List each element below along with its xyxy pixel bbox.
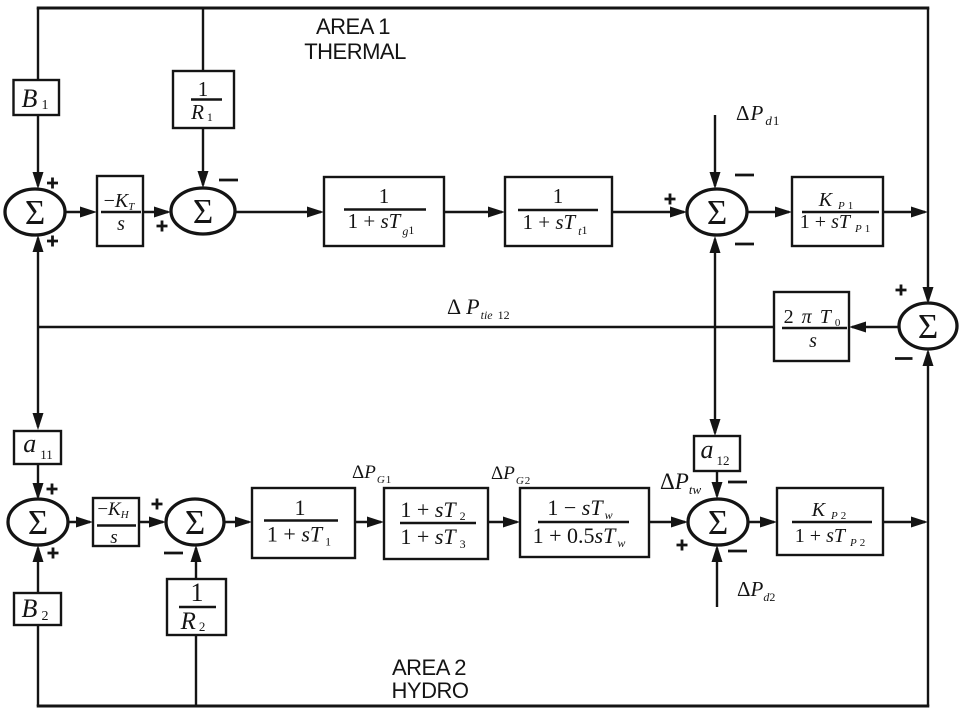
svg-text:1: 1	[295, 495, 306, 520]
wire top bus drop into block 1/R1	[202, 8, 204, 72]
wire bottom feedback bus (delta F2)	[37, 705, 930, 708]
wire tie line left end down into a11	[37, 327, 39, 427]
plus sign Stie top input	[896, 285, 907, 296]
plus sign S3 left input	[665, 194, 676, 205]
minus sign S5 bottom input	[164, 552, 183, 555]
svg-text:s: s	[809, 330, 817, 352]
svg-text:1: 1	[553, 184, 564, 208]
summing junction S2	[171, 188, 235, 234]
block -KH/s	[93, 498, 139, 548]
arrowhead into S1 top	[33, 172, 44, 189]
block 1/(1+sTt1) turbine	[505, 177, 612, 246]
plus sign S2 left input	[157, 221, 168, 232]
wire KP2 output to right bus (delta F2)	[883, 521, 925, 523]
block (1+sT2)/(1+sT3)	[384, 488, 488, 559]
arrowhead into S2 top	[198, 171, 209, 188]
minus sign Stie bottom input	[895, 357, 913, 360]
summing junction S1	[5, 189, 65, 235]
arrowhead at right bus junction lower	[911, 517, 928, 528]
wire tie line left end up into S1 bottom	[37, 238, 39, 327]
block 1/(1+sT1)	[252, 488, 355, 558]
wire tie junction up into S3 bottom	[714, 239, 716, 327]
svg-text:s: s	[110, 527, 117, 548]
plus sign S6 left input	[677, 540, 688, 551]
arrowhead into Stie top	[923, 287, 934, 304]
svg-text:Σ: Σ	[28, 503, 48, 542]
summing junction Stie	[899, 303, 957, 349]
svg-text:Σ: Σ	[25, 193, 45, 232]
svg-text:THERMAL: THERMAL	[304, 39, 406, 64]
block KP2/(1+sTP2) power system 2	[777, 488, 883, 555]
svg-text:Σ: Σ	[708, 503, 728, 542]
block B2	[14, 593, 61, 625]
wire right bus upper segment	[927, 8, 929, 301]
svg-text:1: 1	[198, 77, 209, 101]
block (1-sTw)/(1+0.5sTw) hydro turbine	[520, 488, 649, 557]
plus sign S4 top input	[47, 484, 58, 495]
wire B2 down to bottom bus	[37, 625, 39, 706]
arrowhead into (1+sT2)/(1+sT3)	[367, 517, 384, 528]
plus sign S4 bottom input	[48, 548, 59, 559]
wire (1+sT2)/(1+sT3) to hydro turbine block	[488, 521, 517, 523]
wire left drop from top bus into B1	[37, 8, 39, 81]
arrowhead into S2	[154, 207, 171, 218]
wire -KH/s to summing junction S5	[139, 521, 163, 523]
arrowhead into S3 top	[710, 172, 721, 189]
svg-text:AREA 2: AREA 2	[392, 655, 466, 680]
wire S6 to block KP2	[748, 521, 774, 523]
svg-text:Σ: Σ	[193, 192, 213, 231]
plus sign S5 left input	[152, 499, 163, 510]
wire 1/(1+sT1) to block (1+sT2)/(1+sT3)	[355, 521, 381, 523]
block -KT/s	[97, 176, 143, 246]
minus sign S6 top input	[728, 481, 747, 484]
svg-text:s: s	[117, 213, 125, 235]
wire S1 to block -KT/s	[65, 211, 92, 213]
wire tie-line power long horizontal	[38, 326, 774, 328]
wire 1/R2 up into S5 bottom	[195, 548, 197, 579]
wire a11 to summing junction S4	[37, 464, 39, 497]
arrowhead into S6	[671, 517, 688, 528]
svg-text:Σ: Σ	[185, 503, 205, 542]
wire KP1 output to right bus (delta F1)	[883, 211, 925, 213]
wire 1/R2 down to bottom bus	[195, 635, 197, 706]
arrowhead at right bus junction	[911, 207, 928, 218]
block 1/R1	[173, 71, 234, 128]
svg-text:AREA 1: AREA 1	[316, 14, 390, 39]
wire B2 up into S4 bottom	[37, 548, 39, 593]
svg-text:1: 1	[379, 184, 390, 208]
minus sign S6 bottom input	[728, 550, 747, 553]
block 1/R2	[167, 578, 226, 635]
arrowhead into S4 bottom	[33, 545, 44, 562]
block B1	[14, 80, 60, 115]
wire S3 to block KP1	[747, 211, 789, 213]
minus sign S2 top input	[219, 179, 238, 182]
svg-text:1 + sT1: 1 + sT1	[267, 522, 331, 549]
block a11	[14, 429, 61, 464]
wire load disturbance Pd2 into S6 bottom	[716, 548, 718, 607]
wire S5 to block 1/(1+sT1)	[224, 521, 249, 523]
arrowhead into KP2	[760, 517, 777, 528]
arrowhead into S1 bottom	[33, 235, 44, 252]
summing junction S5	[166, 499, 224, 545]
summing junction S3	[687, 189, 747, 235]
arrowhead into S6 top	[712, 482, 723, 499]
arrowhead into Stie bottom	[923, 349, 934, 366]
svg-text:1 + 0.5sTw: 1 + 0.5sTw	[533, 523, 626, 550]
arrowhead into a11 top	[33, 413, 44, 430]
arrowhead into governor block	[307, 207, 324, 218]
wire B1 to summing junction S1	[37, 115, 39, 186]
arrowhead into KP1	[775, 207, 792, 218]
wire a12 to S6 top	[716, 471, 718, 496]
arrowhead into 1/(1+sT1)	[235, 517, 252, 528]
wire S4 to block -KH/s	[68, 521, 90, 523]
plus sign S1 bottom input	[47, 236, 58, 247]
wire hydro turbine to summing junction S6	[649, 521, 685, 523]
wire S2 to governor block	[235, 211, 321, 213]
arrowhead into hydro turbine block	[503, 517, 520, 528]
block 2piT0/s tie-line	[774, 292, 849, 361]
wire -KT/s to summing junction S2	[143, 211, 168, 213]
svg-text:Σ: Σ	[707, 193, 727, 232]
block 1/(1+sTg1) governor	[324, 177, 444, 246]
minus sign S3 top input	[735, 174, 754, 177]
summing junction S4	[8, 499, 68, 545]
arrowhead into a12 top	[710, 419, 721, 436]
plus sign S1 top input	[47, 178, 58, 189]
arrowhead into S5	[149, 517, 166, 528]
summing junction S6	[688, 499, 748, 545]
wire right bus lower segment (delta F2)	[927, 352, 929, 706]
wire top feedback bus (delta F1)	[37, 7, 930, 10]
arrowhead into turbine block	[488, 207, 505, 218]
arrowhead into S5 bottom	[191, 545, 202, 562]
wire 1/R1 to summing junction S2	[202, 128, 204, 185]
arrowhead into S4 top	[33, 483, 44, 500]
wire turbine to summing junction S3	[612, 211, 684, 213]
svg-text:HYDRO: HYDRO	[392, 678, 469, 703]
block a12	[694, 435, 740, 471]
svg-text:Σ: Σ	[918, 307, 938, 346]
block KP1/(1+sTP1) power system 1	[792, 177, 883, 246]
arrowhead into -KT/s	[80, 207, 97, 218]
arrowhead into -KH/s	[76, 517, 93, 528]
arrowhead into S6 bottom	[712, 545, 723, 562]
minus sign S3 bottom input	[735, 243, 754, 246]
svg-text:1: 1	[191, 578, 204, 607]
wire governor to turbine block	[444, 211, 502, 213]
arrowhead into S3 bottom	[710, 236, 721, 253]
arrowhead into S3	[670, 207, 687, 218]
arrowhead into tie-line block	[849, 322, 866, 333]
wire load disturbance Pd1 into S3	[714, 115, 716, 186]
wire tie junction down into a12	[714, 327, 716, 433]
wire Stie to tie-line block	[852, 326, 899, 328]
